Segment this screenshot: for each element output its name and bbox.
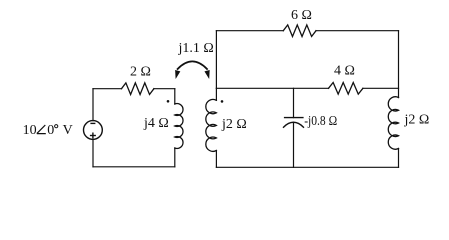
- svg-text:4 Ω: 4 Ω: [334, 64, 355, 79]
- wire mid rail left segment: [216, 87, 328, 89]
- resistor R2 6ohm: [283, 25, 316, 37]
- resistor R3 4ohm: [329, 83, 363, 95]
- wire right-net top rail right segment: [316, 30, 399, 32]
- wire right vertical upper: [398, 31, 400, 98]
- wire mid rail right segment: [363, 87, 399, 89]
- svg-text:j2 Ω: j2 Ω: [404, 113, 430, 128]
- wire left-loop left above source: [92, 89, 94, 121]
- wire left-loop bottom: [93, 166, 175, 168]
- svg-text:6 Ω: 6 Ω: [291, 8, 312, 23]
- wire right-net top rail left segment: [216, 30, 283, 32]
- arrowhead right of mutual arrow: [205, 71, 209, 78]
- source minus sign: [90, 122, 95, 124]
- resistor R1 2ohm: [122, 83, 154, 95]
- wire right-net bottom rail: [216, 166, 398, 168]
- mutual coupling arrow j1.1ohm: [178, 61, 207, 69]
- svg-text:2 Ω: 2 Ω: [130, 65, 151, 80]
- wire left-loop right bottom lead: [174, 148, 176, 167]
- wire right-net left vertical upper: [215, 31, 217, 89]
- wire left-loop top right segment: [154, 88, 175, 90]
- svg-text:10: 10: [23, 123, 37, 138]
- wire left-loop top left segment: [93, 88, 122, 90]
- inductor L3 j2ohm right: [388, 97, 398, 149]
- capacitor C1 curved plate: [284, 122, 304, 127]
- arrowhead left of mutual arrow: [176, 71, 180, 78]
- svg-text:j1.1 Ω: j1.1 Ω: [178, 41, 214, 56]
- svg-text:-j0.8 Ω: -j0.8 Ω: [304, 114, 337, 129]
- wire left-loop right top lead: [174, 89, 176, 104]
- coupling dot right (left j2 coil): [221, 100, 224, 103]
- capacitor C1 top plate: [285, 117, 303, 119]
- source VS circle: [84, 121, 103, 140]
- wire cap branch top lead: [293, 88, 295, 117]
- coupling dot left (j4 coil): [167, 100, 170, 103]
- svg-text:j4 Ω: j4 Ω: [143, 116, 169, 131]
- wire left j2 coil bottom lead: [215, 151, 217, 168]
- source plus sign: [90, 133, 96, 139]
- wire cap branch bottom lead: [293, 123, 295, 168]
- svg-text:j2 Ω: j2 Ω: [221, 117, 247, 132]
- inductor L2 j2ohm left: [206, 99, 217, 151]
- inductor L1 j4ohm: [175, 104, 183, 149]
- wire right vertical lower: [398, 149, 400, 168]
- svg-text:0: 0: [47, 123, 54, 138]
- wire left j2 coil top lead: [215, 88, 217, 100]
- wire left-loop left below source: [92, 140, 94, 167]
- svg-text:V: V: [63, 123, 73, 138]
- label 10 angle 0 deg V: [23, 123, 73, 138]
